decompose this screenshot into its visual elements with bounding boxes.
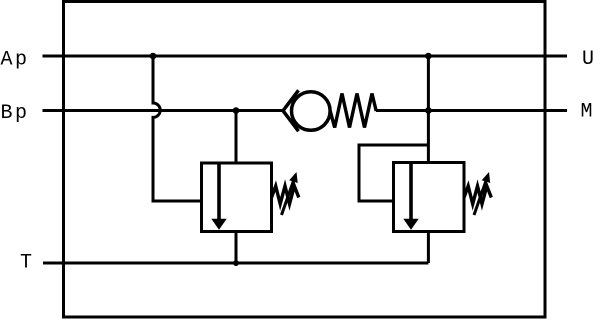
check valve ball circle — [292, 92, 331, 131]
wire pilot branch from Ap with hop over Bp — [153, 56, 202, 201]
wire Bp branch down to left valve — [235, 111, 238, 164]
wire U-M branch down to right valve — [427, 56, 430, 163]
wire Bp line left segment — [43, 109, 285, 112]
junction dot Ap branch — [150, 53, 157, 60]
svg-text:M: M — [581, 101, 596, 124]
enclosure border — [64, 2, 546, 318]
relief valve left body — [202, 163, 272, 232]
check valve seat V — [283, 90, 299, 131]
relief valve left adjustable spring — [272, 172, 299, 215]
wire Ap-U line — [43, 55, 568, 58]
check valve spring — [330, 94, 376, 128]
relief valve left flow arrow — [211, 163, 226, 230]
svg-text:Ap: Ap — [1, 49, 30, 72]
svg-text:U: U — [582, 48, 597, 71]
junction dot left valve T — [233, 260, 239, 266]
junction dot M branch — [425, 107, 432, 114]
relief valve right flow arrow — [403, 163, 418, 230]
wire T line — [43, 262, 428, 265]
svg-text:T: T — [20, 252, 35, 275]
relief valve right adjustable spring — [464, 172, 491, 215]
wire left valve outlet to T — [235, 232, 238, 264]
junction dot Bp branch — [233, 107, 240, 114]
svg-text:Bp: Bp — [1, 102, 30, 125]
wire right valve outlet to T — [427, 232, 430, 264]
relief valve right body — [394, 163, 465, 232]
wire M line right segment — [376, 109, 567, 112]
junction dot U branch — [425, 53, 432, 60]
wire right valve pilot loop — [359, 145, 428, 201]
